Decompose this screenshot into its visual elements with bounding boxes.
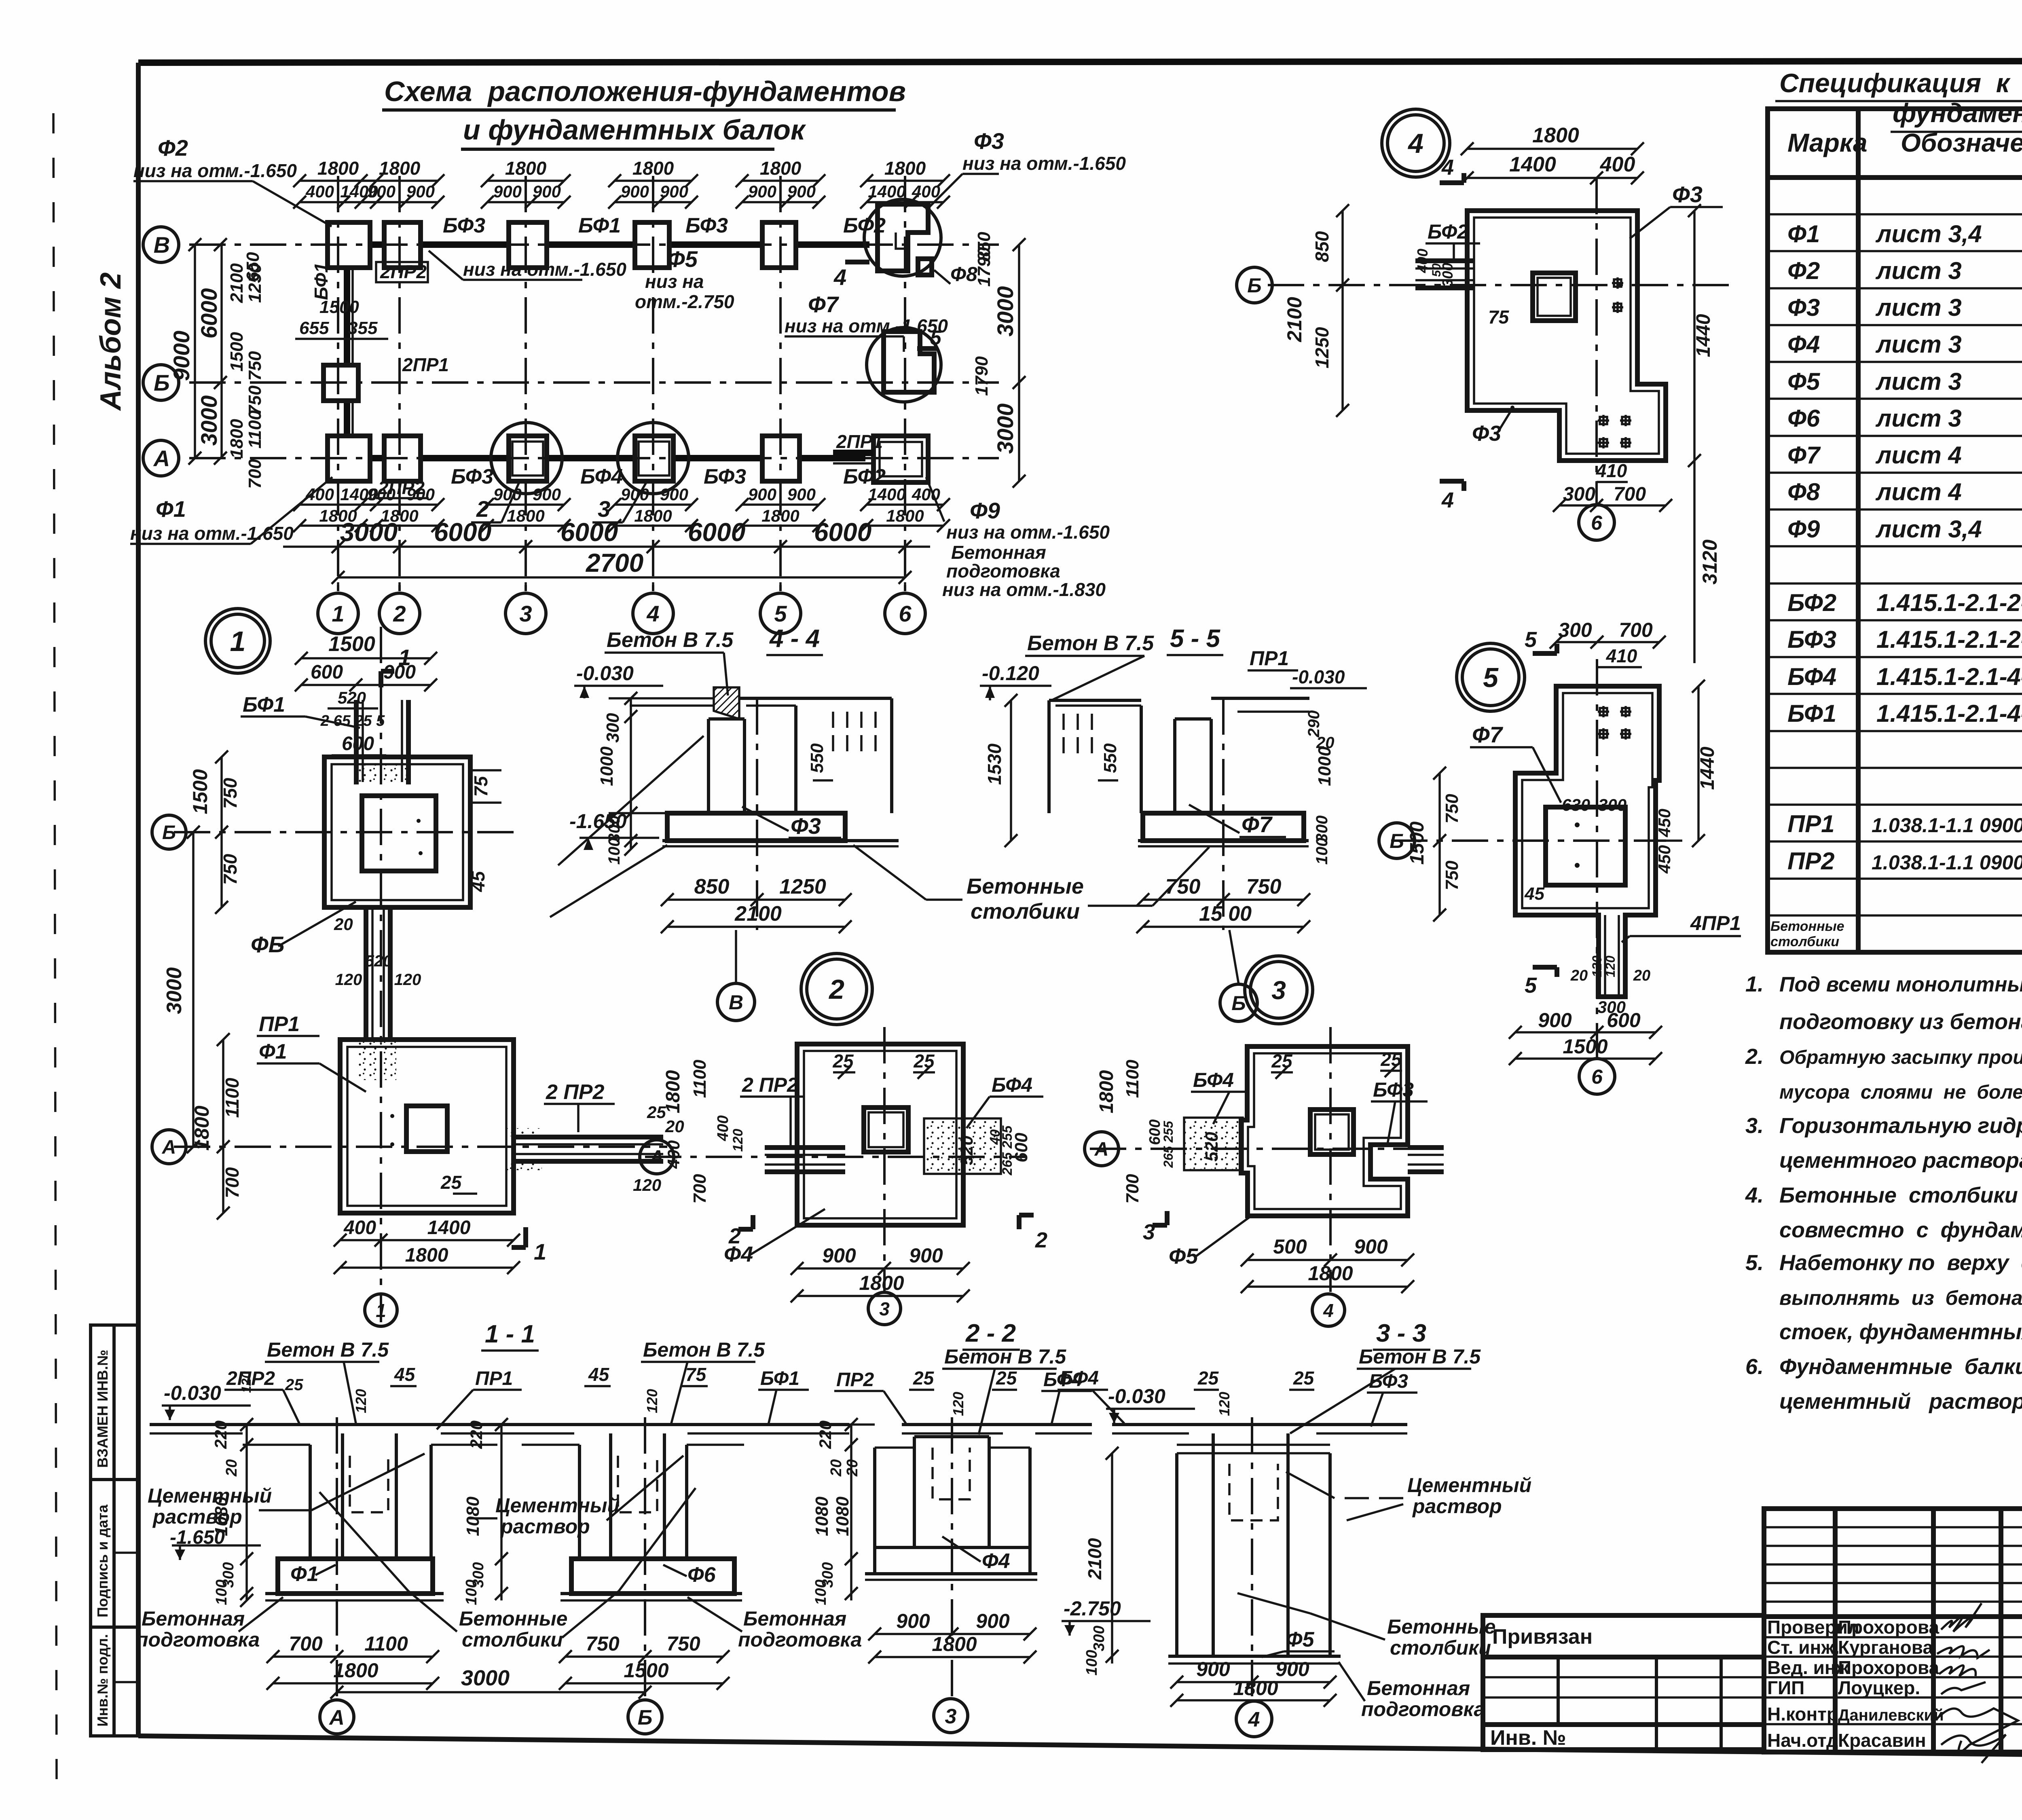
svg-text:3000: 3000 <box>992 286 1018 337</box>
svg-text:1800: 1800 <box>381 506 418 525</box>
svg-text:900: 900 <box>660 485 688 504</box>
svg-text:500: 500 <box>1273 1235 1307 1258</box>
svg-text:цементного раствора состава 1: цементного раствора состава 1:2 толщиной… <box>1779 1148 2022 1173</box>
BF1 beam slot from top <box>354 700 359 784</box>
footing F1 <box>278 1559 433 1594</box>
svg-text:Ф1: Ф1 <box>156 496 186 522</box>
svg-text:45: 45 <box>588 1364 610 1385</box>
svg-text:4: 4 <box>646 601 659 626</box>
svg-text:Ф4: Ф4 <box>724 1242 753 1266</box>
left vertical dims <box>194 245 196 458</box>
svg-text:Фундаментные балки укладываю: Фундаментные балки укладываются на свеже… <box>1779 1355 2022 1379</box>
svg-text:Данилевский: Данилевский <box>1838 1706 1944 1724</box>
svg-text:20: 20 <box>223 1459 240 1477</box>
svg-text:1440: 1440 <box>1697 746 1718 790</box>
svg-text:1.038.1-1.1 090000-02: 1.038.1-1.1 090000-02 <box>1872 851 2022 874</box>
svg-text:Ф3: Ф3 <box>974 128 1004 154</box>
detail 3 foundation F5 stepped plan <box>1241 1046 1408 1216</box>
svg-text:410: 410 <box>1596 460 1627 481</box>
svg-text:1500: 1500 <box>1407 821 1428 865</box>
svg-text:ГИП: ГИП <box>1767 1677 1804 1698</box>
svg-text:850: 850 <box>1311 231 1332 262</box>
svg-text:Ф6: Ф6 <box>687 1563 716 1587</box>
svg-text:400: 400 <box>343 1217 376 1239</box>
svg-text:подготовка: подготовка <box>946 560 1060 581</box>
svg-text:мусора слоями не более 200: мусора слоями не более 200 мм с уплотнен… <box>1779 1082 2022 1103</box>
right wall <box>794 706 797 813</box>
svg-text:низ на отм.-1.650: низ на отм.-1.650 <box>785 315 948 336</box>
beam BF3 exits right <box>1408 1145 1444 1150</box>
svg-text:400: 400 <box>715 1115 732 1141</box>
svg-text:1800: 1800 <box>662 1070 684 1113</box>
svg-text:1: 1 <box>376 1300 386 1321</box>
svg-text:355: 355 <box>348 318 378 338</box>
detail 4 big circle <box>1382 109 1450 177</box>
svg-text:700: 700 <box>1619 619 1653 641</box>
bottom dims 5-5 <box>1143 898 1304 901</box>
svg-text:1500: 1500 <box>319 297 359 317</box>
axis row B <box>189 381 999 384</box>
svg-text:3: 3 <box>1271 976 1286 1005</box>
svg-text:520: 520 <box>957 1135 977 1165</box>
detail 5 foundation F7 plan outline <box>1515 686 1659 997</box>
svg-text:БФ2: БФ2 <box>1428 220 1468 243</box>
stepped foundation F7 row B axis6 <box>867 328 941 402</box>
left vertical stamp boxes <box>91 1325 138 1736</box>
svg-text:4: 4 <box>1323 1300 1334 1321</box>
svg-text:1.415.1-2.1-2-55: 1.415.1-2.1-2-55 <box>1876 626 2022 653</box>
svg-text:БФ4: БФ4 <box>992 1074 1032 1096</box>
svg-text:750: 750 <box>1442 860 1462 890</box>
svg-text:1100: 1100 <box>364 1632 408 1655</box>
svg-text:265 255: 265 255 <box>1161 1120 1176 1168</box>
svg-text:1440: 1440 <box>1693 314 1714 357</box>
svg-text:45: 45 <box>394 1364 416 1385</box>
svg-text:3000: 3000 <box>461 1666 510 1690</box>
svg-text:Бетонные: Бетонные <box>1387 1615 1495 1638</box>
BF2 hatch patch <box>714 687 739 719</box>
svg-text:БФ1: БФ1 <box>760 1368 799 1389</box>
svg-text:520: 520 <box>365 952 392 970</box>
svg-text:БФ4: БФ4 <box>580 465 623 488</box>
svg-text:Набетонку по верху стаканной: Набетонку по верху стаканной части фунда… <box>1779 1251 2022 1275</box>
svg-text:100: 100 <box>1083 1650 1100 1675</box>
pier 2-2 <box>913 1437 916 1547</box>
svg-text:Ф3: Ф3 <box>791 813 821 839</box>
svg-text:Ф2: Ф2 <box>158 135 188 161</box>
top dimension chains per column <box>300 180 376 182</box>
row circles <box>143 227 179 262</box>
svg-text:низ на: низ на <box>645 271 704 292</box>
svg-text:3000: 3000 <box>163 967 186 1014</box>
svg-text:15 00: 15 00 <box>1199 902 1252 926</box>
svg-text:25: 25 <box>913 1051 935 1072</box>
svg-text:1.038.1-1.1 090000-04: 1.038.1-1.1 090000-04 <box>1872 814 2022 837</box>
svg-text:75: 75 <box>470 776 491 797</box>
svg-text:подготовку из бетона В3,5 тол: подготовку из бетона В3,5 толщиной 100 м… <box>1779 1010 2022 1034</box>
svg-text:700: 700 <box>245 459 265 489</box>
svg-text:Бетон В 7.5: Бетон В 7.5 <box>643 1338 765 1361</box>
axis row V <box>189 243 999 246</box>
svg-text:фундаментных балок: фундаментных балок <box>1893 98 2022 128</box>
svg-text:низ на отм.-1.650: низ на отм.-1.650 <box>130 523 294 544</box>
svg-text:столбики: столбики <box>1770 934 1839 949</box>
svg-text:выполнять из бетона В 7,5 по: выполнять из бетона В 7,5 после монтажа … <box>1779 1287 2022 1309</box>
svg-text:Курганова: Курганова <box>1838 1637 1933 1658</box>
svg-text:БФ2: БФ2 <box>843 465 886 488</box>
svg-text:20: 20 <box>844 1459 861 1477</box>
svg-text:550: 550 <box>1100 743 1120 773</box>
svg-text:1000: 1000 <box>1315 746 1335 786</box>
stakan <box>1310 1110 1354 1154</box>
svg-text:900: 900 <box>976 1610 1010 1632</box>
3000 dim <box>192 832 195 1147</box>
left dims <box>1438 773 1441 915</box>
svg-text:1500: 1500 <box>624 1659 668 1682</box>
vertical beam BF1 axis1 <box>344 268 350 366</box>
section marks 4 <box>1440 180 1464 185</box>
svg-text:Ф5: Ф5 <box>1169 1244 1198 1268</box>
footing <box>667 813 845 841</box>
svg-text:Обозначение: Обозначение <box>1901 128 2022 157</box>
svg-text:2ПР2: 2ПР2 <box>380 261 427 282</box>
svg-text:6: 6 <box>1591 1065 1603 1088</box>
svg-text:БФ1: БФ1 <box>1787 700 1836 727</box>
footing 2-2 <box>875 1546 1030 1549</box>
inner opening <box>362 796 436 871</box>
svg-text:Красавин: Красавин <box>1838 1730 1926 1751</box>
svg-text:25: 25 <box>832 1051 854 1072</box>
svg-text:750: 750 <box>666 1632 700 1655</box>
svg-text:6: 6 <box>899 601 912 626</box>
svg-text:1800: 1800 <box>227 419 247 459</box>
svg-text:БФ1: БФ1 <box>578 214 621 237</box>
svg-text:1800: 1800 <box>505 158 547 179</box>
svg-text:низ на отм.-1.650: низ на отм.-1.650 <box>946 522 1110 543</box>
svg-text:100: 100 <box>463 1579 480 1605</box>
svg-text:1000: 1000 <box>597 746 617 786</box>
svg-text:100: 100 <box>213 1579 230 1605</box>
svg-text:ПР2: ПР2 <box>836 1369 874 1391</box>
stakan <box>864 1108 908 1152</box>
lower beam slot between foundations <box>364 907 368 1040</box>
svg-text:низ на отм.-1.650: низ на отм.-1.650 <box>962 153 1126 174</box>
svg-text:Бетонные: Бетонные <box>459 1607 567 1630</box>
svg-text:Альбом 2: Альбом 2 <box>95 273 127 411</box>
foundation squares row A <box>328 436 370 481</box>
svg-text:25: 25 <box>996 1368 1017 1389</box>
extension lines from squares to dims <box>337 582 339 591</box>
svg-text:-0.030: -0.030 <box>1108 1385 1165 1408</box>
detail 4 foundation F3 plan outline <box>1467 211 1666 461</box>
svg-text:БФ3: БФ3 <box>704 465 746 488</box>
svg-text:Цементный: Цементный <box>495 1494 620 1517</box>
svg-text:лист 3: лист 3 <box>1875 368 1962 395</box>
column F3 <box>707 719 710 813</box>
BF4 stipple duct left <box>1184 1118 1243 1170</box>
svg-text:750: 750 <box>1165 875 1201 898</box>
svg-text:120: 120 <box>1603 955 1618 977</box>
svg-text:БФ3: БФ3 <box>1369 1371 1408 1392</box>
svg-text:25: 25 <box>1380 1049 1402 1070</box>
svg-text:100: 100 <box>812 1579 829 1605</box>
tall pier 3-3 <box>1175 1453 1178 1656</box>
svg-text:1500: 1500 <box>1563 1035 1607 1058</box>
svg-text:1100: 1100 <box>245 410 265 448</box>
svg-text:Инв. №: Инв. № <box>1490 1726 1566 1750</box>
svg-text:совместно с фундаментами.: совместно с фундаментами. <box>1779 1218 2022 1242</box>
svg-text:Б: Б <box>154 370 170 395</box>
svg-text:Ф4: Ф4 <box>1787 331 1820 358</box>
inner squares (stakan) for some <box>512 442 543 476</box>
svg-text:655: 655 <box>299 318 329 338</box>
detail 5 big circle <box>1457 643 1525 711</box>
svg-text:1800: 1800 <box>333 1659 378 1682</box>
svg-text:700: 700 <box>222 1167 243 1198</box>
svg-text:4: 4 <box>1248 1708 1260 1731</box>
svg-text:низ на отм.-1.650: низ на отм.-1.650 <box>463 259 626 280</box>
svg-text:300: 300 <box>1439 263 1456 287</box>
top slab lines <box>630 697 714 700</box>
svg-text:подготовка: подготовка <box>1361 1698 1485 1721</box>
svg-text:БФ3: БФ3 <box>1373 1078 1414 1101</box>
beams row A <box>370 455 384 461</box>
foundation squares row V <box>328 222 370 268</box>
svg-text:Ф1: Ф1 <box>290 1562 319 1586</box>
footing F6 <box>571 1559 734 1594</box>
svg-text:2: 2 <box>828 974 844 1005</box>
svg-text:Б: Б <box>638 1706 653 1729</box>
svg-text:75: 75 <box>1488 307 1510 328</box>
svg-text:5: 5 <box>1525 973 1537 998</box>
svg-text:Ф1: Ф1 <box>1787 220 1820 247</box>
svg-text:750: 750 <box>586 1632 620 1655</box>
svg-text:стоек, фундаментных балок.: стоек, фундаментных балок. <box>1779 1320 2022 1344</box>
svg-text:5: 5 <box>1525 628 1537 652</box>
svg-text:Ст. инж.: Ст. инж. <box>1767 1637 1840 1658</box>
svg-text:2: 2 <box>393 601 406 626</box>
svg-text:4ПР1: 4ПР1 <box>1690 912 1741 934</box>
svg-text:3: 3 <box>945 1705 957 1728</box>
svg-text:900: 900 <box>787 485 816 504</box>
svg-text:300: 300 <box>1091 1626 1108 1651</box>
detail 1 lower foundation F1 plan <box>340 1040 514 1213</box>
svg-text:25: 25 <box>1271 1051 1293 1072</box>
section marks 5 <box>1533 651 1557 656</box>
bolts upper <box>1598 710 1609 713</box>
svg-text:120: 120 <box>353 1389 369 1413</box>
1800 dims below row A <box>300 503 376 506</box>
svg-text:ПР1: ПР1 <box>1787 810 1835 837</box>
svg-text:1800: 1800 <box>634 506 672 525</box>
signatures scribbles <box>1941 1603 1982 1632</box>
svg-text:900: 900 <box>406 182 435 201</box>
svg-text:3120: 3120 <box>1698 539 1721 584</box>
svg-text:120: 120 <box>335 971 362 989</box>
svg-text:1800: 1800 <box>886 506 924 525</box>
svg-text:Бетонные: Бетонные <box>967 874 1084 898</box>
svg-text:45: 45 <box>467 871 489 892</box>
svg-text:Обратную засыпку производить г: Обратную засыпку производить грунтом без… <box>1779 1047 2022 1068</box>
svg-text:лист 3: лист 3 <box>1875 257 1962 284</box>
svg-text:300: 300 <box>1598 795 1626 814</box>
svg-text:5: 5 <box>930 326 942 349</box>
svg-text:1.415.1-2.1-2-61: 1.415.1-2.1-2-61 <box>1876 589 2022 616</box>
svg-text:БФ4: БФ4 <box>1193 1069 1234 1091</box>
svg-text:низ на отм.-1.650: низ на отм.-1.650 <box>133 160 297 181</box>
svg-text:1800: 1800 <box>507 506 544 525</box>
svg-text:раствор: раствор <box>500 1515 590 1538</box>
svg-text:БФ4: БФ4 <box>1787 663 1836 690</box>
svg-text:БФ3: БФ3 <box>685 214 728 237</box>
right vertical dims <box>1018 245 1020 481</box>
svg-text:Лоуцкер.: Лоуцкер. <box>1838 1677 1920 1698</box>
svg-text:6.: 6. <box>1745 1355 1764 1379</box>
svg-text:900: 900 <box>748 182 776 201</box>
svg-text:2 - 2: 2 - 2 <box>965 1319 1016 1347</box>
svg-text:900: 900 <box>493 182 522 201</box>
section mark 1 flags <box>523 1227 528 1247</box>
svg-text:520: 520 <box>1202 1132 1222 1162</box>
svg-text:Бетонные столбики под фундам: Бетонные столбики под фундаментные балки… <box>1779 1183 2022 1207</box>
svg-text:2ПР1: 2ПР1 <box>836 431 883 452</box>
title block outer <box>1764 1509 2022 1752</box>
Альбом 2 vertical text <box>95 273 127 411</box>
svg-text:9000: 9000 <box>169 331 194 381</box>
svg-text:1800: 1800 <box>760 158 802 179</box>
beam BF2 entering left <box>1415 258 1474 263</box>
svg-text:900: 900 <box>533 485 561 504</box>
svg-text:В: В <box>729 991 743 1014</box>
svg-text:45: 45 <box>1524 884 1544 904</box>
svg-text:Подпись и дата: Подпись и дата <box>94 1504 111 1617</box>
svg-text:раствор: раствор <box>1412 1495 1502 1518</box>
svg-text:4: 4 <box>1441 155 1454 180</box>
svg-text:20: 20 <box>1633 967 1650 984</box>
svg-text:Ф3: Ф3 <box>1672 182 1703 207</box>
slot down <box>1604 915 1606 997</box>
svg-text:лист 3: лист 3 <box>1875 331 1962 358</box>
svg-text:220: 220 <box>816 1420 835 1449</box>
leaders from cement labels <box>558 736 704 865</box>
right dims <box>1693 211 1696 461</box>
svg-text:4: 4 <box>1407 128 1423 159</box>
svg-text:20: 20 <box>1570 967 1588 984</box>
svg-text:Ф3: Ф3 <box>1787 294 1820 321</box>
svg-text:2: 2 <box>1035 1228 1047 1252</box>
svg-text:раствор: раствор <box>152 1505 242 1528</box>
axis A <box>336 1417 338 1698</box>
svg-text:Ф7: Ф7 <box>1242 812 1273 837</box>
svg-text:450: 450 <box>1655 845 1674 874</box>
top beams 2-2 <box>849 1423 875 1426</box>
svg-text:900: 900 <box>822 1244 856 1267</box>
svg-text:120: 120 <box>1216 1392 1233 1416</box>
svg-text:-2.750: -2.750 <box>1064 1597 1121 1620</box>
axis 3 <box>951 1417 953 1696</box>
svg-text:Н.контр.: Н.контр. <box>1767 1704 1843 1725</box>
section marks 3 <box>1165 1211 1170 1225</box>
detail 3 big circle <box>1245 956 1313 1024</box>
detail 1 big circle <box>205 609 270 673</box>
svg-text:Прохорова: Прохорова <box>1838 1657 1940 1678</box>
svg-text:120: 120 <box>394 971 421 989</box>
svg-text:БФ1: БФ1 <box>243 693 285 717</box>
svg-text:лист 3,4: лист 3,4 <box>1875 516 1982 543</box>
svg-text:ПР1: ПР1 <box>475 1368 513 1389</box>
svg-text:Вед. инж: Вед. инж <box>1767 1657 1849 1678</box>
svg-text:650: 650 <box>243 252 263 282</box>
bolts in lower extension <box>1598 419 1609 422</box>
svg-text:20: 20 <box>828 1459 845 1477</box>
svg-text:520: 520 <box>338 688 366 707</box>
svg-text:1: 1 <box>230 626 246 657</box>
svg-text:2100: 2100 <box>1283 297 1306 342</box>
svg-text:1400: 1400 <box>868 182 905 201</box>
svg-text:1500: 1500 <box>189 769 212 814</box>
left assembly F1 <box>309 1445 312 1559</box>
svg-text:1: 1 <box>398 645 411 670</box>
beam 2PR2 entering left <box>765 1145 845 1150</box>
svg-text:А: А <box>162 1137 176 1158</box>
svg-text:Цементный: Цементный <box>1407 1474 1531 1497</box>
privyazan box <box>1483 1615 1764 1750</box>
svg-text:700: 700 <box>289 1632 323 1655</box>
svg-text:А: А <box>153 446 170 471</box>
svg-text:5: 5 <box>1483 662 1499 693</box>
svg-text:120: 120 <box>950 1392 967 1416</box>
svg-text:700: 700 <box>1614 484 1646 505</box>
stepped foundation F3 row V axis6 <box>864 199 941 276</box>
svg-text:-0.120: -0.120 <box>982 662 1039 685</box>
svg-text:1400: 1400 <box>427 1217 471 1239</box>
svg-text:25: 25 <box>1197 1368 1219 1389</box>
svg-text:Бетон В 7.5: Бетон В 7.5 <box>267 1338 389 1361</box>
svg-text:Бетонная: Бетонная <box>1367 1677 1470 1700</box>
svg-text:4.: 4. <box>1745 1183 1764 1207</box>
svg-text:900: 900 <box>1196 1658 1230 1680</box>
axis A <box>1090 1148 1440 1150</box>
svg-text:БФ3: БФ3 <box>1787 626 1836 653</box>
axis A horizontal <box>645 1156 1027 1158</box>
svg-text:Б: Б <box>1247 274 1261 297</box>
top beams 3-3 <box>1112 1423 1407 1426</box>
axis 4 <box>1251 1417 1253 1696</box>
svg-text:900: 900 <box>1275 1658 1309 1680</box>
svg-text:Прохорова: Прохорова <box>1838 1617 1940 1638</box>
svg-text:А: А <box>1094 1139 1109 1160</box>
svg-text:Бетон В 7.5: Бетон В 7.5 <box>607 628 734 652</box>
svg-text:Спецификация к схеме распол: Спецификация к схеме расположения фундам… <box>1779 68 2022 98</box>
svg-text:Бетонная: Бетонная <box>951 542 1046 563</box>
podgotovka 3-3 <box>1168 1655 1341 1658</box>
svg-text:900: 900 <box>1354 1235 1388 1258</box>
svg-text:1250: 1250 <box>1311 327 1332 368</box>
svg-text:1800: 1800 <box>319 506 357 525</box>
svg-text:1.415.1-2.1-4-44: 1.415.1-2.1-4-44 <box>1876 700 2022 727</box>
svg-text:600: 600 <box>311 662 343 683</box>
svg-text:1250: 1250 <box>779 875 826 898</box>
svg-text:5.: 5. <box>1745 1251 1764 1275</box>
left wall 5-5 <box>1047 700 1051 813</box>
svg-text:Схема расположения-фундаменто: Схема расположения-фундаментов <box>384 76 906 107</box>
svg-text:900: 900 <box>1538 1009 1572 1032</box>
svg-text:20: 20 <box>665 1117 684 1136</box>
svg-text:1800: 1800 <box>884 158 926 179</box>
bottom dims detail3 <box>1247 1259 1408 1261</box>
svg-text:1 - 1: 1 - 1 <box>485 1320 535 1348</box>
svg-text:ПР1: ПР1 <box>259 1013 300 1036</box>
